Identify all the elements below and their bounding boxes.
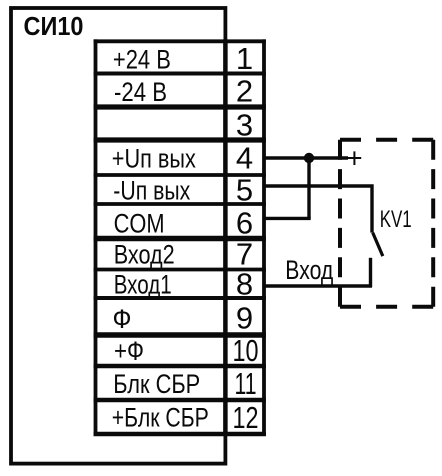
svg-text:2: 2 <box>236 74 253 109</box>
relay KV1 dashed box right edge <box>431 140 435 307</box>
svg-text:4: 4 <box>236 141 253 176</box>
svg-text:3: 3 <box>236 108 253 143</box>
wire terminal 8 to switch bottom <box>264 284 372 287</box>
svg-text:Блк СБР: Блк СБР <box>113 369 200 399</box>
relay KV1 dashed box bottom edge <box>340 305 433 309</box>
svg-text:Вход2: Вход2 <box>114 240 175 270</box>
wire junction down <box>307 158 310 218</box>
svg-text:5: 5 <box>236 173 253 208</box>
terminal block outline <box>94 39 266 436</box>
wire terminal 4 to relay plus <box>264 156 348 159</box>
svg-text:9: 9 <box>236 301 253 336</box>
svg-text:8: 8 <box>236 266 253 301</box>
switch KV1 lower contact <box>369 258 372 287</box>
relay KV1 dashed box left edge <box>338 140 342 307</box>
svg-text:СИ10: СИ10 <box>24 11 84 41</box>
svg-text:Вход1: Вход1 <box>114 269 172 299</box>
svg-text:+Ф: +Ф <box>114 336 144 366</box>
svg-text:11: 11 <box>235 366 257 401</box>
wire terminal 6 to junction <box>264 217 311 220</box>
svg-text:+: + <box>346 142 362 173</box>
svg-text:6: 6 <box>236 205 253 240</box>
svg-text:KV1: KV1 <box>380 206 412 233</box>
device box СИ10 <box>11 8 225 464</box>
svg-text:+Блк СБР: +Блк СБР <box>112 402 209 432</box>
svg-text:+Uп вых: +Uп вых <box>112 144 196 174</box>
svg-text:-24 В: -24 В <box>114 77 167 107</box>
svg-text:Ф: Ф <box>113 304 132 334</box>
svg-text:+24 В: +24 В <box>113 44 171 74</box>
switch KV1 blade <box>373 233 383 257</box>
svg-text:-Uп вых: -Uп вых <box>113 175 190 205</box>
wire terminal 5 to switch top <box>264 186 372 233</box>
svg-text:Вход: Вход <box>285 255 333 285</box>
svg-text:12: 12 <box>233 400 259 435</box>
svg-text:COM: COM <box>114 208 165 238</box>
svg-text:10: 10 <box>233 333 259 368</box>
junction dot on wire 4 <box>304 153 314 163</box>
svg-text:1: 1 <box>236 41 253 76</box>
relay KV1 dashed box top edge <box>340 138 433 142</box>
